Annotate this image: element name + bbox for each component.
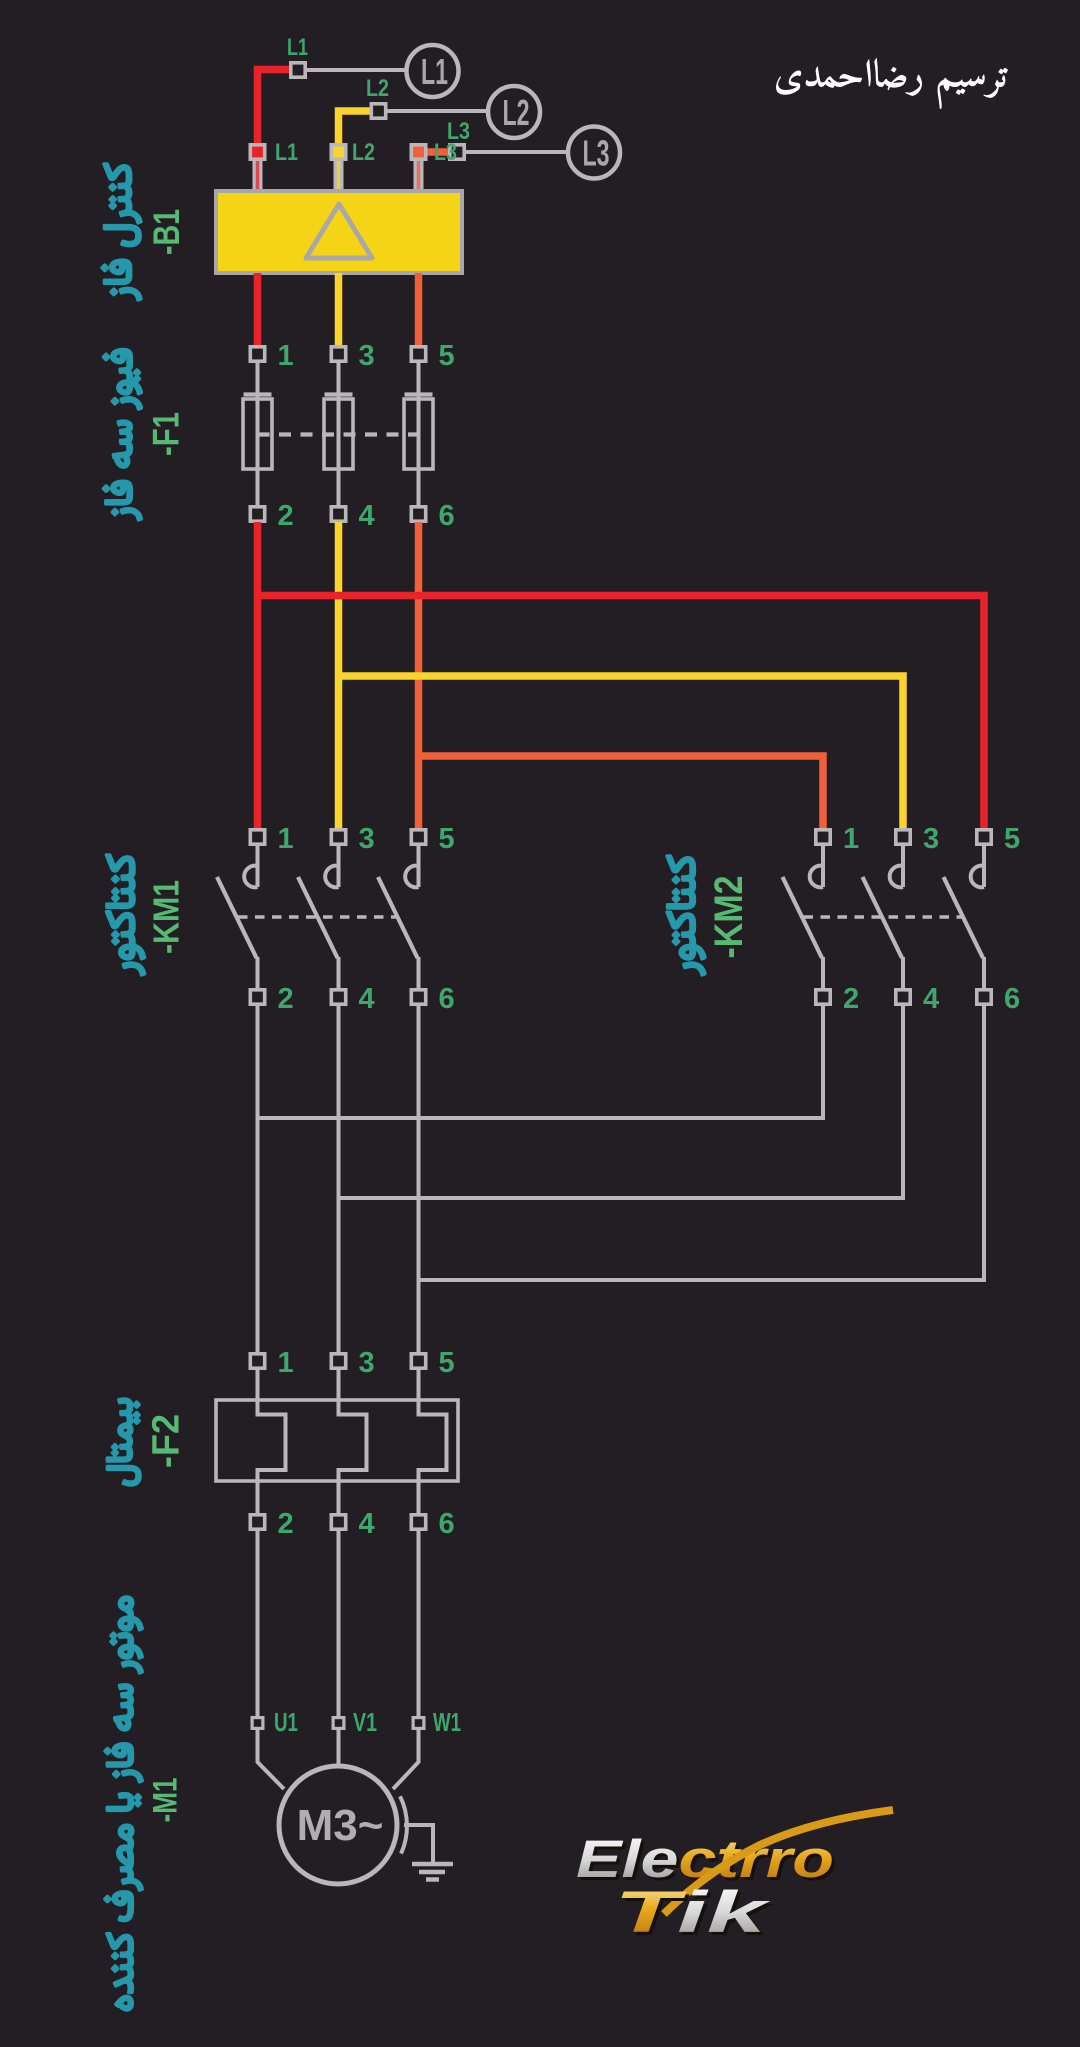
terminal square lamp L2 xyxy=(371,104,385,118)
svg-text:L1: L1 xyxy=(287,34,308,61)
fuse F1 pole 5 wire xyxy=(417,362,421,506)
contactor KM1 dashed linkage xyxy=(238,915,398,919)
fuse F1 pole 3 body xyxy=(324,399,353,469)
wire KM2-2 crossover xyxy=(258,1006,824,1118)
terminal F1 pin 4 xyxy=(331,507,345,521)
wire U1 into motor xyxy=(258,1730,285,1789)
contactor KM1 pole 5 blade xyxy=(378,877,418,958)
svg-text:L2: L2 xyxy=(352,139,375,166)
wire L3 to lamp xyxy=(427,148,449,156)
fuse F1 pole 5 cap xyxy=(405,392,433,396)
wire L2 yellow F1 to KM1 xyxy=(335,522,343,829)
indicator lamp L3 xyxy=(568,127,620,179)
wire L2 to lamp xyxy=(339,111,372,152)
label F2 (Persian bimetal) xyxy=(107,1399,140,1485)
terminal F2 pin 5 xyxy=(411,1354,425,1368)
logo swoosh xyxy=(664,1810,893,1914)
designator -F1 xyxy=(146,412,187,456)
wire L1 to lamp xyxy=(258,70,292,153)
wire into B1 (L2) xyxy=(334,160,344,192)
svg-text:3: 3 xyxy=(923,823,939,855)
designator -F2 xyxy=(146,1414,188,1468)
svg-text:-M1: -M1 xyxy=(147,1778,185,1823)
svg-text:-B1: -B1 xyxy=(146,209,187,255)
terminal F1 pin 3 xyxy=(331,347,345,361)
terminal KM2 pin 5 xyxy=(977,830,991,844)
label M1 (Persian motor three-phase or consumer) xyxy=(105,1597,143,2010)
contactor KM1 pole 1 blade xyxy=(217,877,257,958)
indicator lamp L1 xyxy=(407,45,459,97)
logo ElectroTik xyxy=(576,1810,893,1948)
fuse F1 pole 3 wire xyxy=(337,362,341,506)
terminal KM2 pin 1 xyxy=(816,830,830,844)
contactor KM2 pole 5 fixed contact xyxy=(982,846,986,887)
wire KM2-4 crossover xyxy=(339,1006,904,1198)
designator -KM2 xyxy=(707,876,751,959)
wire B1 to F1 xyxy=(335,273,343,346)
svg-text:4: 4 xyxy=(359,1508,375,1540)
wire W1 into motor xyxy=(393,1730,419,1789)
terminal KM1 pin 4 xyxy=(331,990,345,1004)
terminal F2 pin 4 xyxy=(331,1515,345,1529)
svg-text:6: 6 xyxy=(1004,983,1020,1015)
svg-text:1: 1 xyxy=(278,1347,294,1379)
svg-text:4: 4 xyxy=(359,500,375,532)
label F1 (Persian fuse 3-phase) xyxy=(103,349,141,520)
terminal square B1 L1 xyxy=(250,145,264,159)
svg-text:U1: U1 xyxy=(274,1707,298,1737)
terminal F1 pin 5 xyxy=(411,347,425,361)
terminal F2 pin 6 xyxy=(411,1515,425,1529)
terminal F2 pin 2 xyxy=(250,1515,264,1529)
svg-text:2: 2 xyxy=(278,1508,294,1540)
phase control relay B1 box xyxy=(216,191,462,273)
contactor KM2 pole 1 blade xyxy=(783,877,823,958)
wire F2 to motor xyxy=(417,1531,421,1716)
label KM2 (Persian contactor) xyxy=(667,856,705,975)
svg-text:5: 5 xyxy=(439,1347,455,1379)
wire KM2-6 crossover xyxy=(419,1006,985,1280)
label B1 (Persian kontrol faz) xyxy=(102,164,141,300)
svg-text:2: 2 xyxy=(278,500,294,532)
svg-text:-F2: -F2 xyxy=(146,1414,188,1468)
terminal square lamp L1 xyxy=(291,63,305,77)
terminal U1 xyxy=(252,1718,263,1729)
svg-text:-KM2: -KM2 xyxy=(707,876,751,959)
contactor KM1 pole 3 blade xyxy=(298,877,338,958)
svg-text:3: 3 xyxy=(359,823,375,855)
designator -B1 xyxy=(146,209,187,255)
terminal KM1 pin 3 xyxy=(331,830,345,844)
terminal KM1 pin 2 xyxy=(250,990,264,1004)
svg-text:1: 1 xyxy=(278,823,294,855)
bimetal F2 element 5 xyxy=(419,1362,447,1513)
svg-text:6: 6 xyxy=(439,1508,455,1540)
svg-text:1: 1 xyxy=(278,340,294,372)
svg-text:L1: L1 xyxy=(421,51,448,92)
contactor KM2 pole 3 fixed contact xyxy=(901,846,905,887)
svg-text:Tik: Tik xyxy=(614,1880,771,1945)
wire into B1 (L1) xyxy=(253,160,263,192)
wire V1 into motor xyxy=(337,1730,341,1768)
wire L1 red crossover to KM2 pin 5 xyxy=(258,596,985,830)
contactor KM2 pole 5 blade xyxy=(944,877,984,958)
indicator lamp L2 xyxy=(488,86,540,138)
svg-text:-F1: -F1 xyxy=(146,412,187,456)
terminal KM1 pin 6 xyxy=(411,990,425,1004)
wire L1 red F1 to KM1 xyxy=(254,522,262,829)
terminal F2 pin 3 xyxy=(331,1354,345,1368)
terminal square lamp L3 xyxy=(450,145,464,159)
bimetal F2 element 1 xyxy=(258,1362,286,1513)
bimetal F2 outer box xyxy=(216,1400,458,1481)
svg-text:2: 2 xyxy=(843,983,859,1015)
svg-text:L1: L1 xyxy=(275,139,298,166)
ground wire xyxy=(404,1825,433,1862)
wire KM1-4 to F2-3 xyxy=(337,1006,341,1353)
contactor KM1 pole 5 lower wire xyxy=(417,957,421,989)
wire L3 orange F1 to KM1 xyxy=(415,522,423,829)
wire F2 to motor xyxy=(256,1531,260,1716)
wire B1 to F1 xyxy=(415,273,423,346)
B1 triangle symbol xyxy=(306,204,372,258)
svg-text:3: 3 xyxy=(359,340,375,372)
svg-text:M3~: M3~ xyxy=(297,1801,384,1850)
svg-text:6: 6 xyxy=(439,983,455,1015)
terminal square B1 L2 xyxy=(331,145,345,159)
contactor KM1 pole 1 fixed contact xyxy=(256,846,260,887)
contactor KM1 pole 1 lower wire xyxy=(256,957,260,989)
terminal F1 pin 1 xyxy=(250,347,264,361)
contactor KM2 pole 3 lower wire xyxy=(901,957,905,989)
terminal KM2 pin 2 xyxy=(816,990,830,1004)
svg-text:2: 2 xyxy=(278,983,294,1015)
svg-text:L3: L3 xyxy=(583,133,610,174)
fuse F1 pole 1 wire xyxy=(256,362,260,506)
wire into B1 (L3) xyxy=(414,160,424,192)
bimetal F2 element 3 xyxy=(339,1362,367,1513)
fuse F1 pole 1 body xyxy=(243,399,272,469)
terminal KM2 pin 3 xyxy=(896,830,910,844)
motor shaft arc xyxy=(400,1796,407,1853)
motor M1 circle xyxy=(279,1766,397,1884)
svg-text:5: 5 xyxy=(1004,823,1020,855)
contactor KM2 pole 5 lower wire xyxy=(982,957,986,989)
ground symbol xyxy=(412,1864,453,1880)
svg-text:V1: V1 xyxy=(353,1707,377,1737)
terminal KM1 pin 5 xyxy=(411,830,425,844)
designator -M1 xyxy=(147,1778,185,1823)
fuse F1 dashed link xyxy=(258,432,419,436)
terminal KM1 pin 1 xyxy=(250,830,264,844)
terminal KM2 pin 6 xyxy=(977,990,991,1004)
svg-text:-KM1: -KM1 xyxy=(145,880,186,954)
wire L3 orange crossover to KM2 pin 1 xyxy=(419,756,824,829)
svg-text:L2: L2 xyxy=(503,92,530,133)
contactor KM2 pole 3 blade xyxy=(863,877,903,958)
terminal KM2 pin 4 xyxy=(896,990,910,1004)
terminal F1 pin 2 xyxy=(250,507,264,521)
fuse F1 pole 1 cap xyxy=(244,392,272,396)
wire lamp L1 gray xyxy=(305,68,406,72)
wire lamp L2 gray xyxy=(387,109,489,113)
svg-text:4: 4 xyxy=(923,983,939,1015)
contactor KM1 pole 3 fixed contact xyxy=(337,846,341,887)
wire F2 to motor xyxy=(337,1531,341,1716)
label KM1 (Persian contactor) xyxy=(106,855,144,975)
svg-text:6: 6 xyxy=(439,500,455,532)
terminal F1 pin 6 xyxy=(411,507,425,521)
terminal W1 xyxy=(413,1718,424,1729)
terminal F2 pin 1 xyxy=(250,1354,264,1368)
fuse F1 pole 3 cap xyxy=(325,392,353,396)
terminal V1 xyxy=(333,1718,344,1729)
fuse F1 pole 5 body xyxy=(404,399,433,469)
svg-text:4: 4 xyxy=(359,983,375,1015)
contactor KM1 pole 5 fixed contact xyxy=(417,846,421,887)
designator -KM1 xyxy=(145,880,186,954)
svg-text:5: 5 xyxy=(439,340,455,372)
svg-text:L3: L3 xyxy=(434,139,457,166)
contactor KM2 dashed linkage xyxy=(804,915,964,919)
signature text (Persian: drawn by Reza Ahmadi) xyxy=(776,58,1008,109)
svg-text:3: 3 xyxy=(359,1347,375,1379)
wire lamp L3 gray xyxy=(466,150,568,154)
contactor KM2 pole 1 lower wire xyxy=(821,957,825,989)
svg-text:W1: W1 xyxy=(433,1707,461,1737)
svg-text:L2: L2 xyxy=(366,75,389,102)
contactor KM2 pole 1 fixed contact xyxy=(821,846,825,887)
wire B1 to F1 xyxy=(254,273,262,346)
svg-text:1: 1 xyxy=(843,823,859,855)
wire KM1-2 to F2-1 xyxy=(256,1006,260,1353)
svg-text:5: 5 xyxy=(439,823,455,855)
wire L2 yellow crossover to KM2 pin 3 xyxy=(339,676,904,829)
contactor KM1 pole 3 lower wire xyxy=(337,957,341,989)
terminal square B1 L3 xyxy=(411,145,425,159)
wire KM1-6 to F2-5 xyxy=(417,1006,421,1353)
